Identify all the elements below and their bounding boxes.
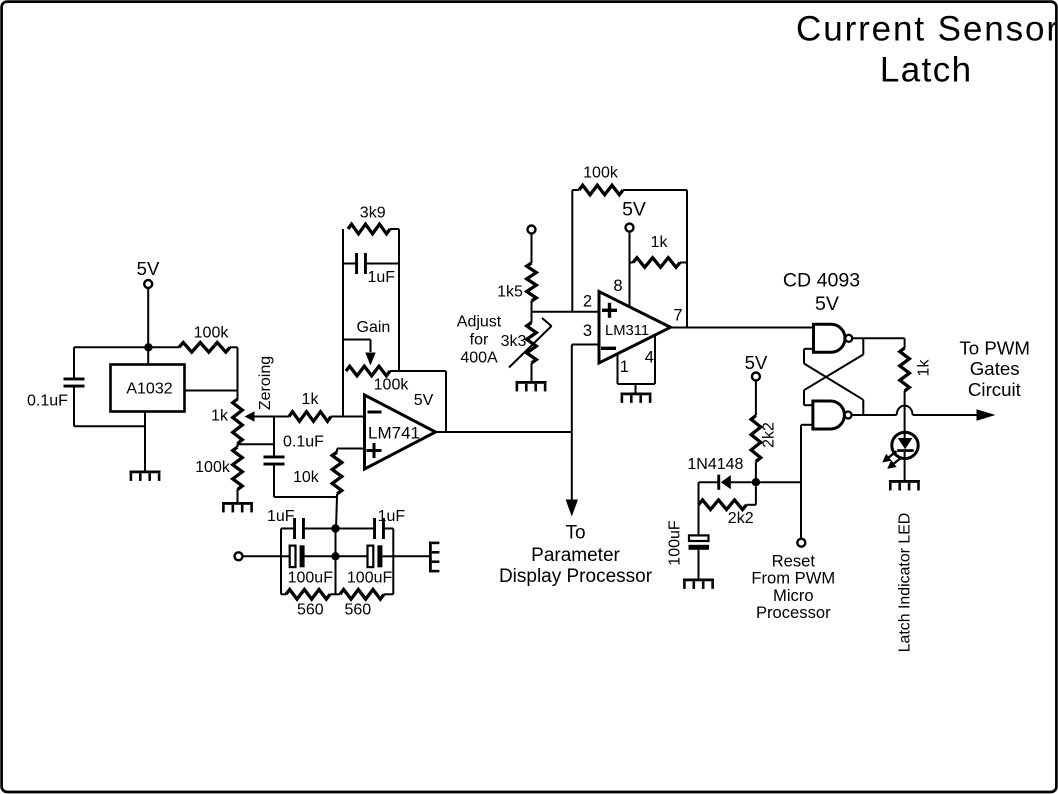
node dot middle rail bbox=[331, 552, 339, 560]
wire reset line vertical bbox=[800, 425, 802, 539]
svg-text:3k9: 3k9 bbox=[360, 205, 386, 222]
svg-text:Zeroing: Zeroing bbox=[257, 356, 274, 410]
wire U3B lower input stub bbox=[801, 424, 813, 426]
resistor R14 560 bbox=[281, 590, 336, 619]
wire inverting input LM311 bbox=[572, 345, 599, 433]
svg-text:0.1uF: 0.1uF bbox=[27, 393, 68, 410]
svg-text:Display Processor: Display Processor bbox=[499, 566, 653, 587]
svg-text:1k5: 1k5 bbox=[497, 284, 523, 301]
wire LM741 output bbox=[436, 431, 572, 433]
wire 5V to A1032 top bbox=[147, 288, 149, 365]
wire 100k fb left vertical bbox=[571, 190, 573, 312]
resistor R11 1k (pull-up) bbox=[630, 234, 688, 267]
resistor R8 1k5 bbox=[497, 263, 536, 301]
wire hop to arrow bbox=[913, 414, 977, 416]
wire input to network bbox=[243, 555, 282, 557]
svg-text:4: 4 bbox=[645, 348, 654, 366]
svg-text:Current Sensor: Current Sensor bbox=[796, 10, 1058, 49]
node dot top rail bbox=[331, 524, 339, 532]
svg-text:1N4148: 1N4148 bbox=[687, 456, 743, 473]
wire A1032 output pin bbox=[185, 390, 238, 392]
power terminal 5V (LM311) bbox=[622, 198, 646, 231]
capacitor C5 1uF bbox=[336, 508, 406, 539]
label Zeroing bbox=[257, 356, 274, 410]
label 1k rotated bbox=[915, 359, 932, 377]
svg-text:5V: 5V bbox=[745, 352, 768, 373]
svg-text:1: 1 bbox=[620, 358, 629, 376]
capacitor C7 100uF bbox=[336, 545, 394, 586]
svg-text:Latch Indicator LED: Latch Indicator LED bbox=[897, 513, 914, 653]
capacitor C3 1uF (feedback) bbox=[343, 253, 399, 286]
resistor R7 10k bbox=[293, 449, 342, 498]
resistor R5 3k9 bbox=[348, 205, 399, 234]
wire non-inverting input bbox=[337, 448, 365, 450]
svg-text:560: 560 bbox=[344, 602, 371, 619]
wire 5V rail horizontal bbox=[74, 346, 179, 348]
svg-text:400A: 400A bbox=[460, 350, 498, 367]
ground (A1032) bbox=[130, 471, 161, 481]
svg-text:LM741: LM741 bbox=[368, 424, 420, 443]
arrow to parameter display bbox=[566, 500, 578, 517]
svg-text:7: 7 bbox=[673, 307, 682, 325]
svg-text:3k3: 3k3 bbox=[501, 333, 527, 350]
label To PWM Gates Circuit bbox=[959, 337, 1030, 400]
wire LM311 output bbox=[671, 327, 814, 329]
svg-text:560: 560 bbox=[297, 602, 324, 619]
diode D1 1N4148 bbox=[687, 456, 751, 490]
svg-text:2k2: 2k2 bbox=[728, 510, 754, 527]
potentiometer R6 100k (Gain) bbox=[346, 366, 409, 393]
node junction dot (reset) bbox=[752, 478, 760, 486]
wire network center vertical bbox=[335, 529, 337, 595]
arrow to PWM gates bbox=[977, 409, 996, 421]
ground (below 100k) bbox=[222, 502, 253, 512]
wire U3A lower input stub bbox=[804, 349, 814, 364]
ground (LM311) bbox=[621, 393, 652, 403]
wire 100k to zeroing pot bbox=[237, 347, 239, 400]
svg-text:Parameter: Parameter bbox=[531, 545, 620, 566]
wire network left vertical bbox=[280, 529, 282, 595]
pin label 1 bbox=[620, 358, 629, 376]
svg-text:From PWM: From PWM bbox=[751, 569, 835, 588]
svg-text:LM311: LM311 bbox=[605, 323, 649, 339]
wire 5V to 2k2 bbox=[755, 381, 757, 416]
label Adjust for 400A bbox=[457, 314, 502, 367]
wire U3B output to hop bbox=[852, 414, 897, 416]
svg-text:5V: 5V bbox=[815, 293, 839, 315]
svg-text:100k: 100k bbox=[194, 325, 230, 342]
svg-text:for: for bbox=[470, 332, 489, 349]
resistor R15 560 bbox=[336, 590, 394, 619]
wire network right vertical bbox=[392, 529, 394, 595]
svg-text:Gates: Gates bbox=[970, 358, 1020, 379]
svg-text:2k2: 2k2 bbox=[761, 422, 778, 448]
wire diode anode down bbox=[698, 482, 700, 505]
resistor R4 1k (input) bbox=[289, 391, 343, 421]
svg-text:100k: 100k bbox=[374, 377, 410, 394]
pin label 2 bbox=[583, 292, 592, 310]
pin label 3 bbox=[583, 322, 592, 340]
svg-text:Processor: Processor bbox=[756, 603, 831, 622]
wire feedback right vertical bbox=[398, 229, 400, 371]
reset terminal bbox=[797, 539, 805, 547]
resistor R10 100k (hysteresis) bbox=[572, 165, 687, 195]
svg-text:1uF: 1uF bbox=[267, 508, 295, 525]
wire network to ground bbox=[393, 555, 429, 557]
svg-text:1uF: 1uF bbox=[368, 269, 396, 286]
svg-text:2: 2 bbox=[583, 292, 592, 310]
resistor R12 2k2 (vertical) bbox=[751, 416, 761, 483]
svg-text:0.1uF: 0.1uF bbox=[283, 434, 324, 451]
svg-text:100uF: 100uF bbox=[666, 520, 683, 566]
svg-text:100k: 100k bbox=[195, 459, 231, 476]
resistor R3 100k bbox=[195, 447, 242, 502]
wire 1k to inverting input bbox=[343, 416, 365, 418]
wire cross-couple A bbox=[804, 364, 863, 416]
wire junction to reset line bbox=[760, 481, 801, 483]
ground (100uF) bbox=[683, 579, 714, 589]
label 2k2 rotated bbox=[761, 422, 778, 448]
label CD 4093 bbox=[783, 269, 860, 315]
gain wiper arrow bbox=[343, 340, 376, 366]
svg-text:To PWM: To PWM bbox=[959, 337, 1030, 358]
wire 1k5 to junction bbox=[531, 301, 533, 323]
power terminal 5V (reset) bbox=[745, 352, 768, 381]
label Gain bbox=[357, 319, 391, 336]
svg-text:A1032: A1032 bbox=[126, 381, 172, 398]
wire cap to bottom rail bbox=[274, 465, 337, 497]
LED emission arrows bbox=[882, 451, 901, 469]
IC A1032 bbox=[111, 365, 185, 412]
label To Parameter Display Processor bbox=[499, 523, 653, 588]
capacitor C1 0.1uF bbox=[27, 347, 145, 426]
resistor R1 100k bbox=[179, 325, 238, 353]
svg-text:100uF: 100uF bbox=[347, 570, 393, 587]
pin label 7 bbox=[673, 307, 682, 325]
node junction dot (5V rail) bbox=[144, 343, 152, 351]
wire A1032 bottom to ground bbox=[144, 412, 146, 471]
capacitor C8 100uF (reset) bbox=[689, 535, 710, 578]
wire hop over LED branch bbox=[897, 406, 913, 415]
svg-text:100k: 100k bbox=[583, 165, 619, 182]
op-amp U1 LM741 bbox=[365, 392, 436, 469]
svg-text:8: 8 bbox=[613, 277, 622, 295]
wire pot to op-amp output bbox=[390, 371, 446, 432]
svg-text:1k: 1k bbox=[651, 234, 669, 251]
wire wiper node down bbox=[273, 417, 275, 457]
input terminal (sensor) bbox=[235, 552, 243, 560]
svg-text:1k: 1k bbox=[211, 408, 229, 425]
trimmer arrow 3k3 bbox=[509, 318, 552, 368]
svg-text:5V: 5V bbox=[622, 198, 646, 220]
capacitor C6 100uF bbox=[281, 545, 336, 586]
svg-text:1k: 1k bbox=[915, 359, 932, 377]
label 100uF rotated bbox=[666, 520, 683, 566]
capacitor C4 1uF bbox=[267, 508, 335, 539]
svg-text:CD 4093: CD 4093 bbox=[783, 269, 860, 291]
wire feedback left vertical bbox=[342, 229, 344, 417]
potentiometer R9 3k3 bbox=[501, 323, 537, 382]
input terminal (1k5) bbox=[528, 226, 536, 234]
power terminal 5V (A1032) bbox=[137, 258, 160, 288]
LED D2 indicator bbox=[892, 432, 918, 480]
ground (network, right facing) bbox=[429, 542, 439, 573]
title text bbox=[796, 10, 1058, 90]
svg-text:Circuit: Circuit bbox=[968, 379, 1022, 400]
wire divider to comparator + bbox=[532, 311, 600, 313]
label Reset From PWM Micro Processor bbox=[751, 551, 835, 622]
svg-text:Reset: Reset bbox=[772, 551, 816, 570]
svg-text:Latch: Latch bbox=[880, 51, 973, 90]
svg-text:Gain: Gain bbox=[357, 319, 391, 336]
wire pot bottom tap bbox=[238, 444, 275, 448]
wire branch down to display bbox=[571, 432, 573, 500]
zeroing wiper arrow bbox=[245, 411, 290, 421]
wire cross-couple B bbox=[804, 338, 863, 390]
NAND gate U3B bbox=[813, 401, 852, 429]
wire 2k2 to 100uF bbox=[698, 505, 700, 535]
svg-text:5V: 5V bbox=[414, 392, 434, 409]
potentiometer R2 1k (Zeroing) bbox=[211, 399, 242, 444]
svg-text:10k: 10k bbox=[293, 469, 320, 486]
NAND gate U3A bbox=[814, 324, 853, 352]
wire U3B upper input stub bbox=[804, 390, 813, 405]
svg-text:To: To bbox=[565, 523, 585, 544]
svg-text:100uF: 100uF bbox=[288, 570, 334, 587]
resistor R16 1k (LED) bbox=[900, 338, 910, 438]
svg-text:Adjust: Adjust bbox=[457, 314, 502, 331]
svg-text:Micro: Micro bbox=[773, 586, 814, 605]
pin label 4 bbox=[645, 348, 654, 366]
svg-text:5V: 5V bbox=[137, 258, 160, 279]
wire 10k bottom to network bbox=[336, 497, 337, 529]
comparator U2 LM311 bbox=[599, 292, 671, 364]
wire pins 1 and 4 to ground bbox=[618, 336, 656, 393]
wire 5V to pin 8 bbox=[629, 232, 631, 308]
wire 100k fb right vertical bbox=[686, 190, 688, 328]
ground (3k3) bbox=[516, 381, 547, 391]
svg-text:3: 3 bbox=[583, 322, 592, 340]
resistor R13 2k2 (horizontal) bbox=[699, 486, 756, 527]
ground (LED) bbox=[889, 480, 920, 490]
svg-text:1k: 1k bbox=[302, 391, 320, 408]
pin label 8 bbox=[613, 277, 622, 295]
wire terminal to 1k5 bbox=[531, 234, 533, 264]
svg-text:1uF: 1uF bbox=[378, 508, 406, 525]
capacitor C2 0.1uF (zeroing) bbox=[264, 434, 325, 466]
label Latch Indicator LED bbox=[897, 513, 914, 653]
wire U3A output bbox=[852, 337, 904, 339]
